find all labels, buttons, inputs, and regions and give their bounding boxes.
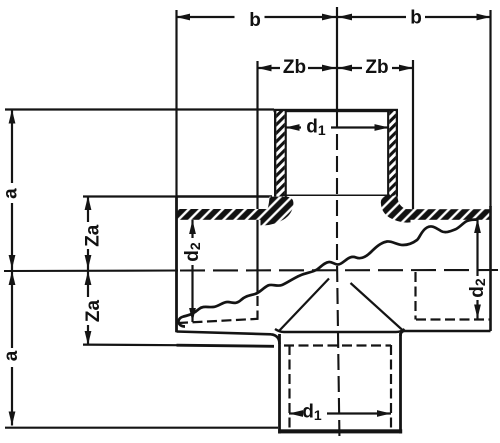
svg-text:a: a bbox=[1, 188, 22, 199]
dim line d1 bottom bbox=[289, 412, 299, 414]
dim line b left segment bbox=[176, 16, 235, 18]
dim line b right segment bbox=[338, 16, 406, 18]
top socket right wall outer line bbox=[396, 110, 398, 197]
dim line Zb left segment bbox=[257, 67, 280, 69]
Za bottom arrow bbox=[85, 331, 92, 345]
d2 right top arrow bbox=[474, 219, 481, 233]
b right arrow bbox=[477, 14, 491, 21]
Zb center arrows bbox=[322, 65, 336, 72]
hidden (dashed) lines bbox=[178, 272, 490, 428]
bottom socket stop hidden bbox=[284, 344, 391, 346]
left bore bottom hidden bbox=[178, 319, 259, 323]
right mouth ext line up to b dim bbox=[489, 10, 491, 207]
d1 top right arrow bbox=[375, 124, 389, 131]
ext line Zb left stop plane bbox=[256, 61, 258, 292]
dim line Zb right segment bbox=[338, 67, 362, 69]
svg-text:a: a bbox=[1, 350, 22, 361]
svg-text:Zb: Zb bbox=[365, 57, 388, 78]
d2 left bottom arrow bbox=[189, 308, 196, 322]
bottom socket mouth bbox=[278, 429, 402, 433]
b left arrow bbox=[176, 14, 190, 21]
right OD bottom bbox=[403, 330, 491, 333]
Zb right arrow bbox=[399, 65, 413, 72]
top socket left wall inner line bbox=[285, 110, 287, 197]
svg-text:b: b bbox=[249, 10, 261, 31]
ext line Za bottom bbox=[83, 344, 177, 347]
wavy break line bbox=[178, 220, 476, 327]
a top arrow bbox=[9, 110, 16, 124]
left OD bottom fillet into bottom socket wall bbox=[271, 334, 280, 344]
top socket left wall outer line bbox=[274, 110, 276, 197]
d2 left top arrow bbox=[189, 220, 196, 234]
top socket mouth cap bbox=[274, 109, 399, 112]
d1 top left arrow bbox=[286, 124, 300, 131]
d2 right bottom arrow bbox=[474, 305, 481, 319]
b center arrows bbox=[322, 14, 336, 21]
ext line Za top bbox=[83, 195, 177, 197]
right stop hidden bbox=[414, 272, 416, 320]
left corner fillet blob bbox=[261, 197, 294, 226]
chamfer diagonal left bbox=[279, 279, 330, 332]
left stop hidden bbox=[256, 296, 258, 319]
svg-text:Za: Za bbox=[82, 224, 103, 247]
right mouth face bbox=[489, 206, 492, 331]
bottom socket bore right hidden bbox=[390, 345, 392, 428]
top socket right wall inner line bbox=[387, 110, 389, 197]
ext line a top bbox=[5, 108, 274, 110]
svg-text:b: b bbox=[410, 8, 422, 29]
right band bbox=[406, 209, 491, 220]
top socket left wall hatch bbox=[276, 111, 284, 197]
d1 bottom left arrow bbox=[289, 410, 303, 417]
a center arrows bbox=[9, 255, 16, 269]
centerline horizontal bbox=[4, 112, 498, 441]
dim line d2 right bbox=[476, 219, 478, 276]
bottom socket bore left hidden bbox=[288, 345, 290, 428]
bottom socket right wall bbox=[399, 333, 402, 434]
dim line d2 left bbox=[191, 220, 193, 238]
centerline vertical dashed bbox=[337, 112, 340, 441]
right corner fillet blob bbox=[381, 196, 411, 223]
dim line d1 top bbox=[286, 126, 302, 128]
ext line a bottom bbox=[5, 427, 278, 429]
Za center arrows bbox=[85, 255, 92, 269]
top socket stop shoulder line bbox=[283, 194, 390, 196]
bottom socket shoulder bbox=[275, 329, 405, 332]
left mouth face bbox=[175, 196, 178, 332]
svg-text:Zb: Zb bbox=[283, 57, 306, 78]
svg-text:Za: Za bbox=[83, 299, 104, 322]
dim line Za bbox=[87, 196, 89, 222]
a bottom arrow bbox=[9, 412, 16, 426]
chamfer diagonal right bbox=[351, 283, 404, 331]
d1 bottom right arrow bbox=[377, 410, 391, 417]
dim line a bbox=[11, 110, 13, 184]
top socket right wall hatch bbox=[389, 111, 395, 196]
left bell outer top line bbox=[177, 195, 273, 197]
left mouth ext line up to b dim bbox=[175, 10, 177, 196]
Za top arrow bbox=[85, 196, 92, 210]
Zb left arrow bbox=[258, 65, 272, 72]
bottom socket left wall bbox=[278, 334, 281, 434]
ext line Zb right stop plane bbox=[412, 60, 414, 209]
right bore bottom hidden bbox=[416, 318, 490, 320]
ext line center vertical (solid top) bbox=[336, 7, 338, 110]
left OD bottom bbox=[177, 332, 272, 335]
right OD bottom fillet into bottom socket wall bbox=[401, 331, 405, 336]
left bell outer bottom bbox=[177, 345, 275, 346]
left band (pipe wall in section) bbox=[177, 209, 262, 220]
